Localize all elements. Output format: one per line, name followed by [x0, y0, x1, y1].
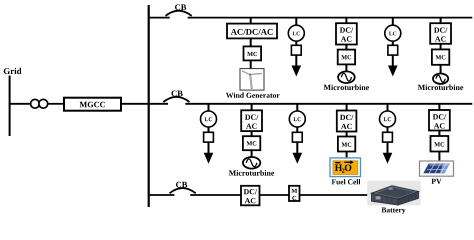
feeder 1 wire (right of CB)	[188, 17, 473, 19]
wire grid to transformer	[10, 103, 32, 105]
wire DC/AC to MC (fuel cell)	[346, 132, 348, 137]
label PV	[431, 179, 441, 184]
MC box (fuel cell)	[338, 137, 355, 152]
MC box (MT3)	[243, 136, 260, 150]
wire LC5 to load square	[387, 127, 389, 132]
microturbine symbol (MT2)	[433, 74, 448, 84]
MC box (wind)	[244, 46, 262, 60]
label Battery	[382, 208, 406, 215]
MC box (MT2)	[432, 49, 449, 64]
wire feeder2 to DC/AC (fuel cell)	[346, 104, 348, 111]
circuit breaker CB1	[166, 4, 192, 16]
wind generator icon	[240, 69, 264, 91]
wire MC to battery	[300, 194, 371, 196]
wire LC1 to load square	[295, 41, 297, 45]
MC box (battery)	[289, 186, 300, 201]
feeder 3 wire (left of CB)	[149, 194, 175, 196]
battery icon	[367, 181, 421, 206]
label Microturbine (MT3)	[229, 170, 274, 176]
MGCC box	[64, 98, 121, 111]
load arrow LC5	[383, 142, 393, 164]
grid bus vertical line	[9, 76, 11, 137]
wire MGCC to main bus	[121, 103, 149, 105]
MC box (MT1)	[338, 50, 355, 65]
circuit breaker CB3	[170, 182, 196, 194]
converter DC/AC (MT1)	[336, 23, 357, 44]
wire feeder to LC2	[392, 18, 394, 26]
wire MC to microturbine (MT3)	[251, 150, 253, 157]
wire feeder2 to DC/AC (PV)	[438, 104, 440, 110]
load square LC3	[204, 132, 214, 142]
wire MC to microturbine (MT1)	[345, 64, 347, 71]
PV panel icon	[420, 161, 454, 176]
wire MC to fuel cell icon	[346, 152, 348, 158]
load square LC2	[388, 45, 398, 55]
microturbine symbol (MT1)	[338, 71, 355, 83]
wire feeder to LC1	[295, 18, 297, 26]
wire DC/AC to MC (PV)	[438, 131, 440, 137]
wire transformer to MGCC	[48, 103, 63, 105]
load arrow LC2	[388, 55, 398, 76]
load controller LC2	[385, 25, 401, 41]
wire DC/AC to MC (battery)	[260, 194, 290, 196]
wire AC/DC/AC to MC	[250, 38, 252, 46]
load arrow LC4	[293, 142, 303, 164]
wire feeder to LC5	[387, 104, 389, 111]
load controller LC3	[201, 111, 217, 127]
label Microturbine (MT1)	[324, 85, 369, 91]
wire feeder to LC3	[208, 104, 210, 111]
wire feeder to DC/AC (MT2)	[440, 18, 442, 24]
load square LC5	[383, 132, 393, 142]
wire LC2 to load square	[392, 41, 394, 45]
feeder 3 wire CB to DC/AC	[190, 194, 241, 196]
MC box (PV)	[431, 136, 449, 152]
converter DC/AC (fuel cell)	[337, 111, 357, 132]
load arrow LC1	[292, 55, 302, 76]
main bus	[148, 5, 150, 207]
converter AC/DC/AC (wind)	[227, 24, 277, 39]
wire feeder to DC/AC (MT1)	[345, 18, 347, 24]
converter DC/AC (PV)	[429, 110, 450, 131]
wire MC to PV icon	[438, 152, 440, 162]
wire DC/AC to MC (MT1)	[345, 45, 347, 50]
feeder 2 wire (right of CB)	[185, 103, 472, 105]
load controller LC4	[289, 111, 305, 127]
load square LC4	[292, 132, 302, 142]
wire DC/AC to MC (MT3)	[251, 131, 253, 136]
wire feeder1 to AC/DC/AC	[250, 18, 252, 24]
node Grid label	[4, 68, 22, 74]
load arrow LC3	[204, 142, 214, 164]
load controller LC1	[288, 25, 304, 41]
wire LC4 to load square	[296, 127, 298, 132]
wire MC to wind generator	[250, 60, 252, 68]
feeder 2 wire (left of CB)	[149, 103, 168, 105]
circuit breaker CB2	[163, 91, 189, 103]
load controller LC5	[380, 111, 396, 127]
converter DC/AC (battery)	[241, 186, 260, 206]
label Fuel Cell	[332, 179, 361, 184]
wire LC3 to load square	[208, 127, 210, 132]
wire feeder to LC4	[296, 104, 298, 111]
load square LC1	[291, 45, 301, 55]
fuel cell H2O icon	[330, 158, 361, 177]
wire DC/AC to MC (MT2)	[440, 44, 442, 50]
label Wind Generator	[226, 93, 280, 98]
label Microturbine (MT2)	[418, 85, 463, 91]
converter DC/AC (MT3)	[241, 110, 262, 131]
transformer T1	[31, 99, 48, 108]
microturbine symbol (MT3)	[243, 157, 260, 169]
feeder 1 wire (left of CB)	[149, 17, 170, 19]
wire feeder to DC/AC (MT3)	[251, 104, 253, 111]
wire MC to microturbine (MT2)	[440, 65, 442, 74]
converter DC/AC (MT2)	[430, 23, 451, 44]
